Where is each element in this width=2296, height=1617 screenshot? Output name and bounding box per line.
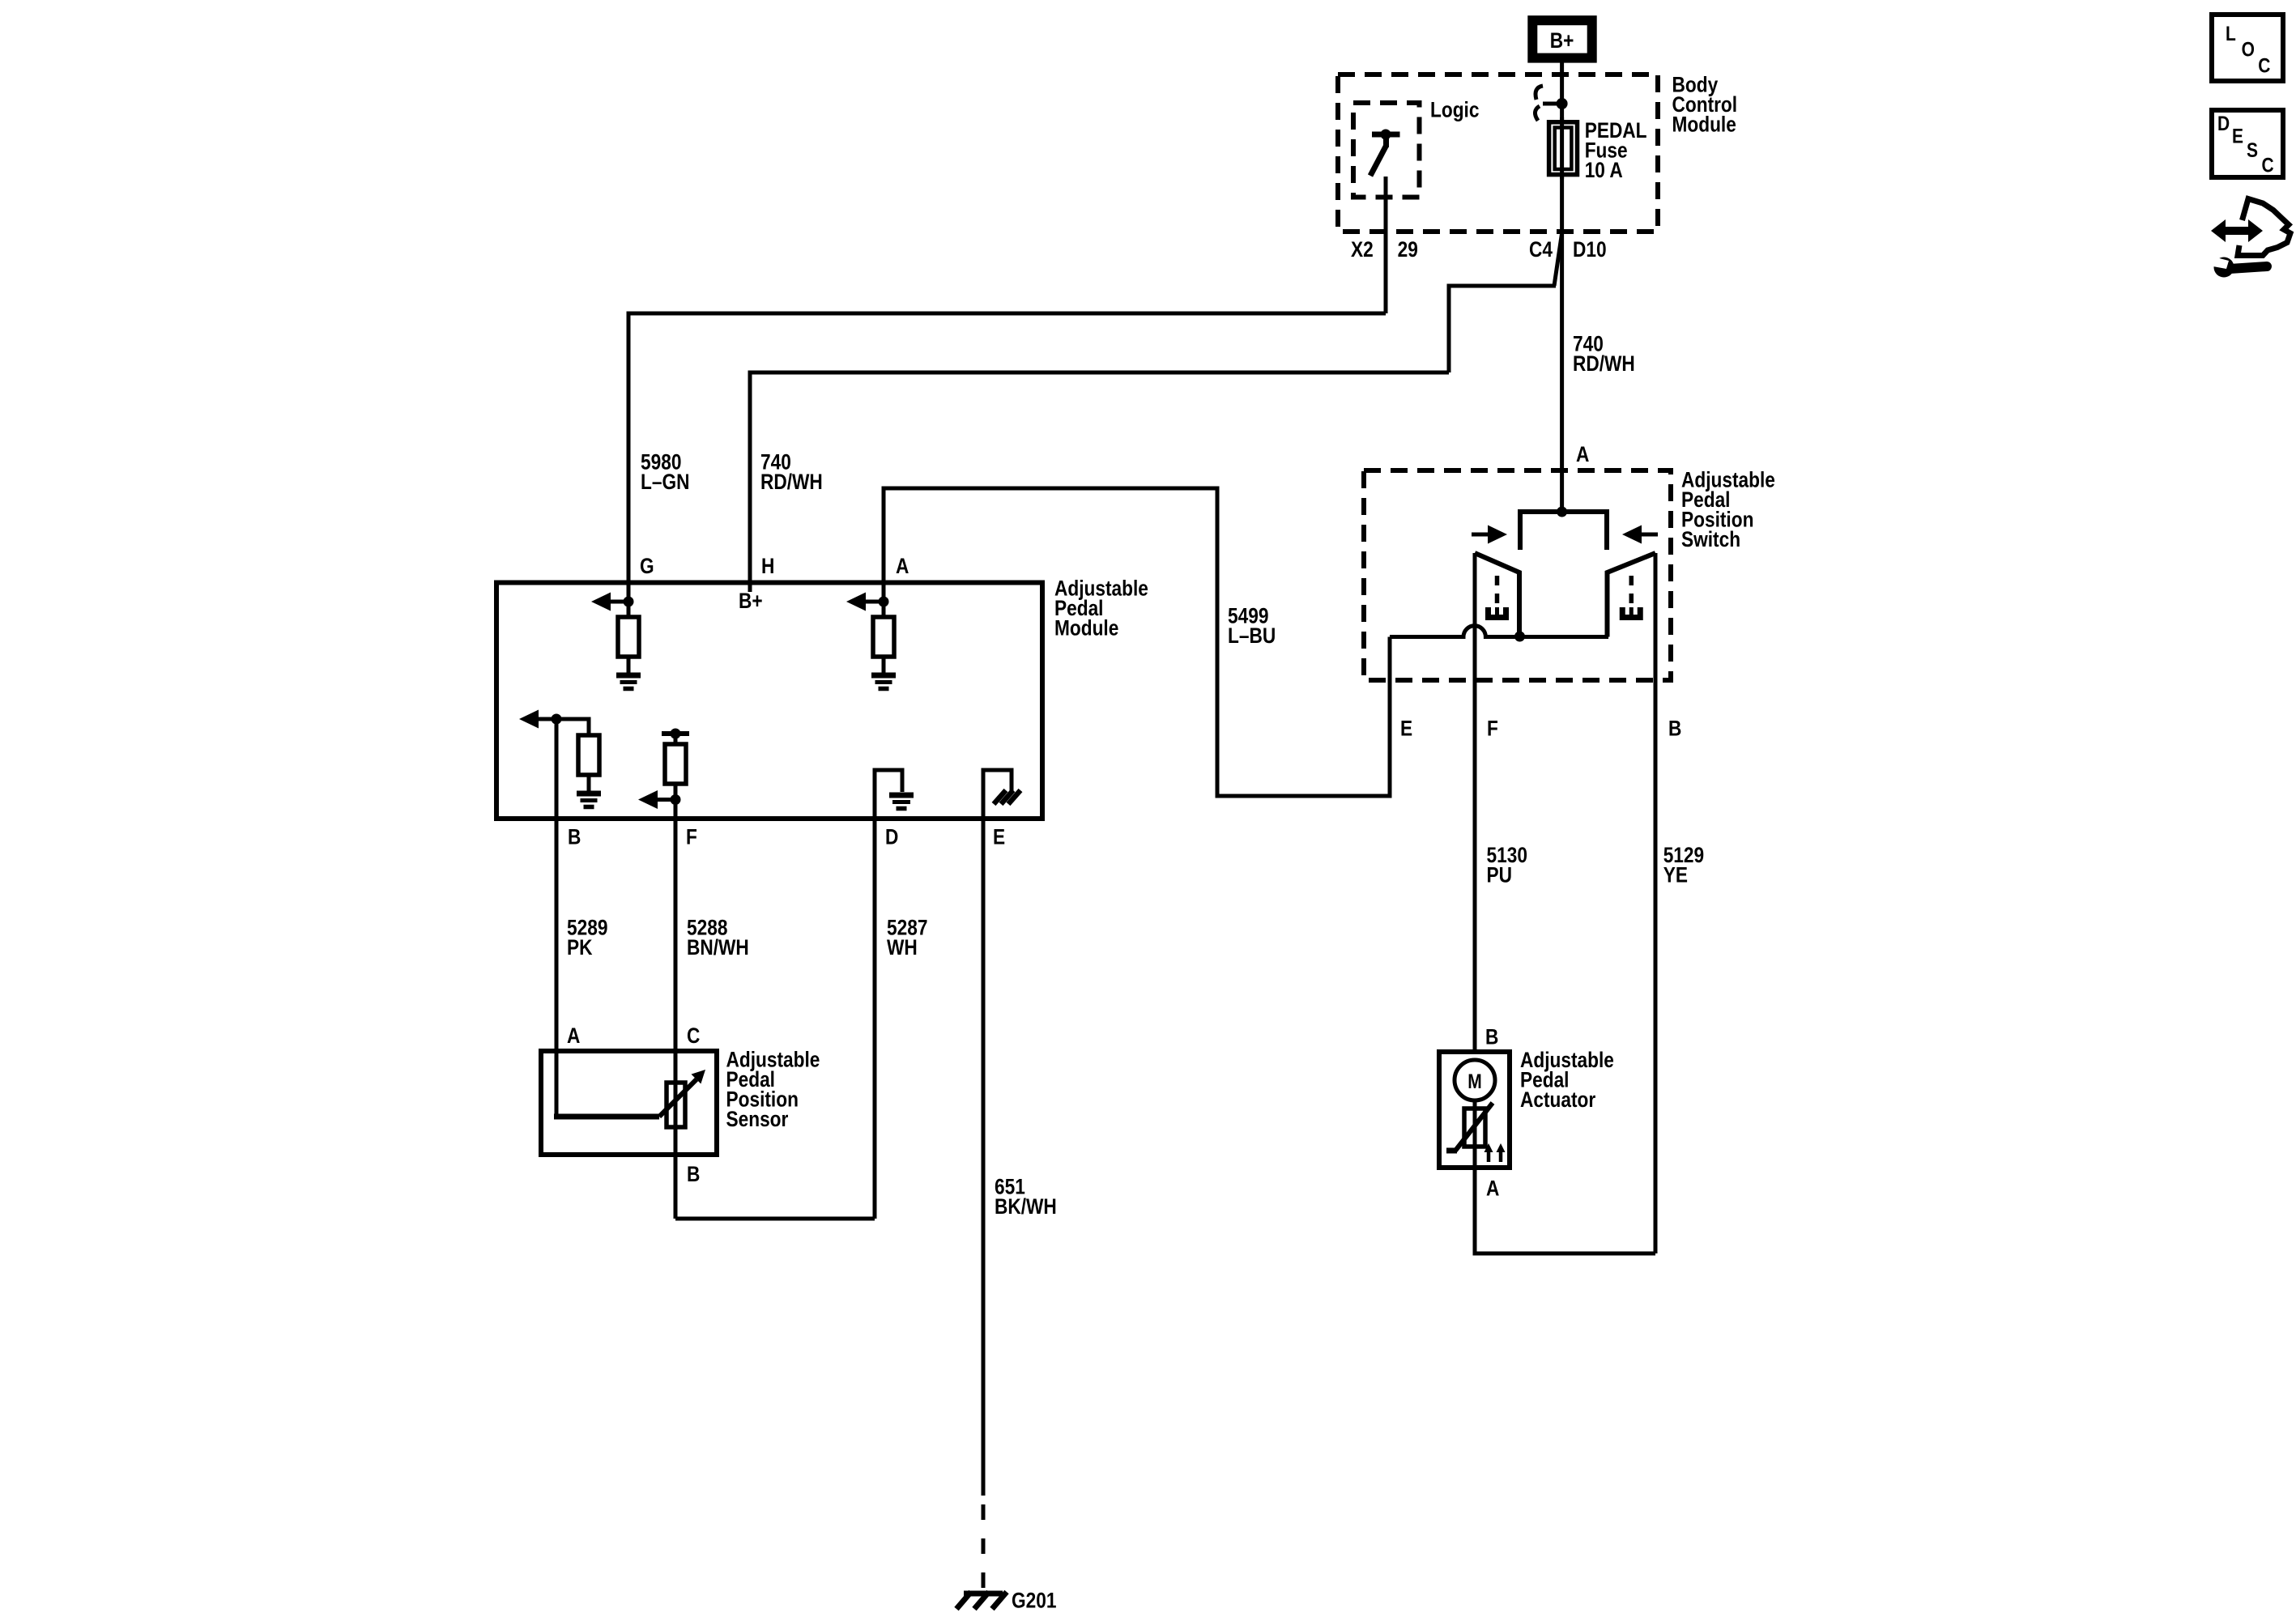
wire: motor to variable resistor — [1473, 1100, 1477, 1108]
junction dot module pin G — [624, 597, 634, 607]
svg-text:D: D — [2217, 112, 2230, 134]
adjustable pedal position switch S1 dashed box — [1364, 470, 1671, 680]
wire: R4 down to pin F junction — [674, 784, 678, 800]
wire: 5289 PK module pin B down into sensor pin A — [555, 719, 559, 1117]
svg-text:29: 29 — [1398, 237, 1418, 262]
fuse clip symbol at B+ junction — [1535, 86, 1557, 121]
resistor R2 at pin A — [873, 617, 894, 657]
potentiometer wiper arrow — [659, 1070, 705, 1117]
wire: 5499 L-BU from module pin A to switch pin E — [884, 488, 1390, 796]
svg-text:E: E — [993, 825, 1005, 849]
svg-text:B+: B+ — [739, 589, 763, 613]
svg-text:O: O — [2242, 38, 2255, 61]
battery terminal B+ box — [1532, 20, 1591, 57]
wire: sensor pin B bottom run to 5287 WH — [675, 1217, 875, 1221]
svg-text:B: B — [687, 1162, 700, 1186]
svg-text:D10: D10 — [1573, 237, 1607, 262]
arrow out module pin A — [846, 593, 884, 611]
svg-text:G: G — [640, 554, 654, 578]
motor M1 in actuator — [1455, 1060, 1495, 1100]
ground hook at module pin D — [875, 770, 902, 819]
wire: B+ feed through BCM fuse down to switch pin A (740 RD/WH) — [1560, 62, 1564, 512]
ground symbol at R1 — [616, 675, 641, 689]
left blade inner dashed detent — [1489, 576, 1506, 618]
svg-text:S: S — [2247, 138, 2258, 161]
right blade inner dashed detent — [1622, 576, 1640, 618]
svg-text:E: E — [2232, 125, 2243, 147]
wire: 5287 WH module pin D down — [873, 819, 877, 1219]
adjustable pedal position sensor box — [541, 1051, 717, 1155]
svg-text:F: F — [1487, 717, 1498, 741]
arrow actuate left side — [1472, 526, 1507, 544]
junction dot module pin F — [671, 794, 681, 805]
variable resistor R6 in actuator — [1464, 1108, 1485, 1147]
svg-text:Logic: Logic — [1430, 98, 1480, 122]
wire: pin B branch to R3 — [556, 719, 589, 735]
svg-text:H: H — [761, 554, 774, 578]
svg-text:D: D — [885, 825, 898, 849]
svg-text:C: C — [2262, 154, 2274, 177]
actuator adjust up arrows — [1485, 1143, 1506, 1162]
svg-text:5499L–BU: 5499L–BU — [1228, 604, 1276, 649]
wire: module pin A stub — [882, 488, 886, 617]
wire: R3 to ground — [587, 775, 591, 791]
arrow out module pin F — [638, 790, 675, 809]
svg-text:A: A — [1486, 1177, 1499, 1201]
wire: 740 RD/WH horizontal run to module pin H — [750, 372, 1449, 581]
adjustable pedal module box — [496, 583, 1042, 819]
junction dot module pin B — [552, 714, 562, 725]
wire: R1 to ground — [627, 657, 631, 673]
wire: 5130 PU switch pin F down to actuator pin B — [1473, 553, 1477, 1052]
fuse F1 PEDAL 10A — [1549, 117, 1578, 179]
legend LOC box — [2212, 15, 2283, 81]
wire: logic switch output down to junction row X2/29 — [1384, 177, 1388, 313]
wire: module pin G stub — [627, 581, 631, 617]
svg-text:M: M — [1467, 1070, 1481, 1092]
junction dot module pin A — [879, 597, 889, 607]
wire: actuator pin A loop to 5129 YE — [1475, 1168, 1655, 1253]
svg-text:E: E — [1400, 717, 1412, 741]
tap bar with dot above R4 — [662, 729, 689, 745]
wire: R6 through to pin A redrawn — [1473, 1108, 1477, 1168]
ground G201 symbol — [956, 1592, 1007, 1609]
svg-text:B+: B+ — [1550, 28, 1574, 53]
svg-text:F: F — [686, 825, 697, 849]
svg-text:X2: X2 — [1351, 237, 1374, 262]
wire: 5129 YE switch pin B down to actuator loop — [1654, 553, 1658, 1253]
junction dot on switch common — [1514, 632, 1525, 642]
ground symbol at R3 — [577, 794, 601, 807]
wire: switch common horizontal with hop over F wire — [1390, 626, 1608, 637]
wire: sensor pin C through potentiometer redrawn — [674, 1083, 678, 1127]
wire: diagonal jog below BCM between C4 and D10 — [1554, 233, 1562, 286]
variable resistor diagonal stroke — [1446, 1103, 1493, 1151]
ground symbol at R2 — [871, 675, 896, 689]
svg-text:A: A — [567, 1023, 580, 1048]
wire: 651 BK/WH dashed continuation to G201 — [982, 1504, 986, 1592]
resistor R4 at pin F — [665, 744, 686, 784]
svg-text:C: C — [2258, 54, 2270, 77]
svg-text:G201: G201 — [1012, 1589, 1057, 1613]
svg-text:A: A — [1576, 442, 1589, 466]
svg-text:L: L — [2226, 22, 2236, 45]
potentiometer R5 in sensor — [667, 1083, 685, 1127]
wire: sensor internal run to wiper — [554, 1114, 659, 1120]
svg-text:B: B — [1668, 717, 1681, 741]
arrow actuate right side — [1622, 526, 1658, 544]
switch left blade contact — [1475, 553, 1519, 636]
svg-text:A: A — [896, 554, 909, 578]
wire: 651 BK/WH module pin E down (solid part) — [982, 819, 986, 1496]
resistor R1 at pin G — [618, 617, 639, 657]
adjustable pedal actuator box — [1439, 1052, 1510, 1168]
logic block dashed box — [1353, 103, 1420, 198]
wire: 740 RD/WH branch jog horizontal — [1449, 286, 1556, 372]
chassis ground symbol at pin E — [994, 790, 1020, 804]
wire: R2 to ground — [882, 657, 886, 673]
arrow out module pin B — [519, 710, 556, 729]
arrow out module pin G — [591, 593, 628, 611]
wire: 5980 L-GN horizontal run from X2-29 to module pin G — [628, 313, 1386, 581]
legend DESC box — [2212, 110, 2283, 177]
wire: 5288 BN/WH module pin F down through sensor (pin C to pin B) — [674, 800, 678, 1219]
ground symbol at pin D — [889, 795, 914, 809]
svg-text:B: B — [568, 825, 581, 849]
resistor R3 at pin B — [578, 735, 599, 775]
svg-text:C: C — [687, 1023, 700, 1048]
junction dot at switch pin A — [1557, 507, 1567, 517]
svg-text:C4: C4 — [1529, 237, 1553, 262]
logic control switch — [1370, 130, 1400, 177]
svg-text:B: B — [1485, 1025, 1498, 1049]
switch top bracket (movable contact carrier) — [1520, 512, 1607, 550]
chassis ground hook at module pin E — [983, 770, 1012, 819]
switch right blade contact — [1608, 553, 1656, 637]
legend service icon: vehicle outline with arrows and wrench — [2209, 199, 2290, 278]
body control module U1 dashed box — [1338, 74, 1658, 232]
junction dot at fuse top — [1557, 98, 1568, 109]
wire: module pin H stub to B+ label — [748, 581, 752, 592]
